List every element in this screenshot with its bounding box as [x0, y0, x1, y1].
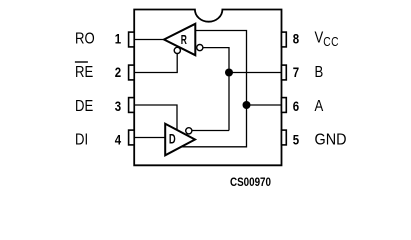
svg-text:A: A	[315, 98, 324, 115]
wire pin3 to driver enable	[134, 105, 177, 130]
svg-text:D: D	[169, 132, 176, 147]
pin 4 stub	[129, 130, 135, 145]
receiver inverting input bubble (B)	[197, 45, 203, 51]
svg-text:4: 4	[115, 132, 121, 147]
pin 8 stub	[282, 32, 287, 47]
svg-text:CS00970: CS00970	[230, 176, 271, 189]
svg-text:DE: DE	[75, 98, 93, 115]
IC body U1 (DIP-8 outline with index notch)	[134, 10, 281, 166]
pin 6 stub	[282, 98, 287, 113]
wire receiver input B: from bubble to vertical net B	[203, 48, 229, 131]
wire node A to pin 6	[247, 104, 282, 106]
wire pin2 to receiver enable bubble	[134, 54, 177, 73]
svg-text:GND: GND	[315, 131, 347, 149]
pin 1 stub	[129, 32, 135, 47]
wire node B to pin 7	[229, 72, 282, 74]
svg-text:3: 3	[115, 99, 121, 114]
receiver enable bubble (RE)	[174, 47, 180, 53]
junction node B	[225, 69, 233, 77]
svg-text:1: 1	[115, 31, 121, 46]
wire driver output A to node A	[181, 105, 247, 147]
svg-text:DI: DI	[75, 131, 88, 148]
driver inverting output bubble (B)	[186, 128, 192, 134]
svg-text:RE: RE	[75, 64, 93, 81]
pin 3 stub	[129, 98, 135, 113]
svg-text:RO: RO	[75, 30, 95, 47]
svg-text:7: 7	[293, 65, 299, 80]
svg-text:6: 6	[293, 99, 299, 114]
RE overline	[75, 61, 88, 63]
svg-text:B: B	[315, 64, 324, 81]
wire pin4 to driver input	[134, 137, 165, 139]
pin 7 stub	[282, 65, 287, 80]
pin 5 stub	[282, 130, 287, 145]
svg-text:2: 2	[115, 65, 121, 80]
junction node A	[243, 101, 251, 109]
wire pin1 to receiver output	[134, 39, 164, 41]
svg-text:R: R	[181, 33, 187, 47]
driver D triangle	[165, 124, 195, 156]
svg-text:5: 5	[293, 132, 299, 147]
pin 2 stub	[129, 65, 135, 80]
wire driver inverting output to net B	[192, 130, 229, 132]
receiver R triangle	[164, 24, 195, 55]
wire receiver input A: from R base down to node A	[195, 31, 246, 106]
svg-text:8: 8	[293, 31, 299, 46]
